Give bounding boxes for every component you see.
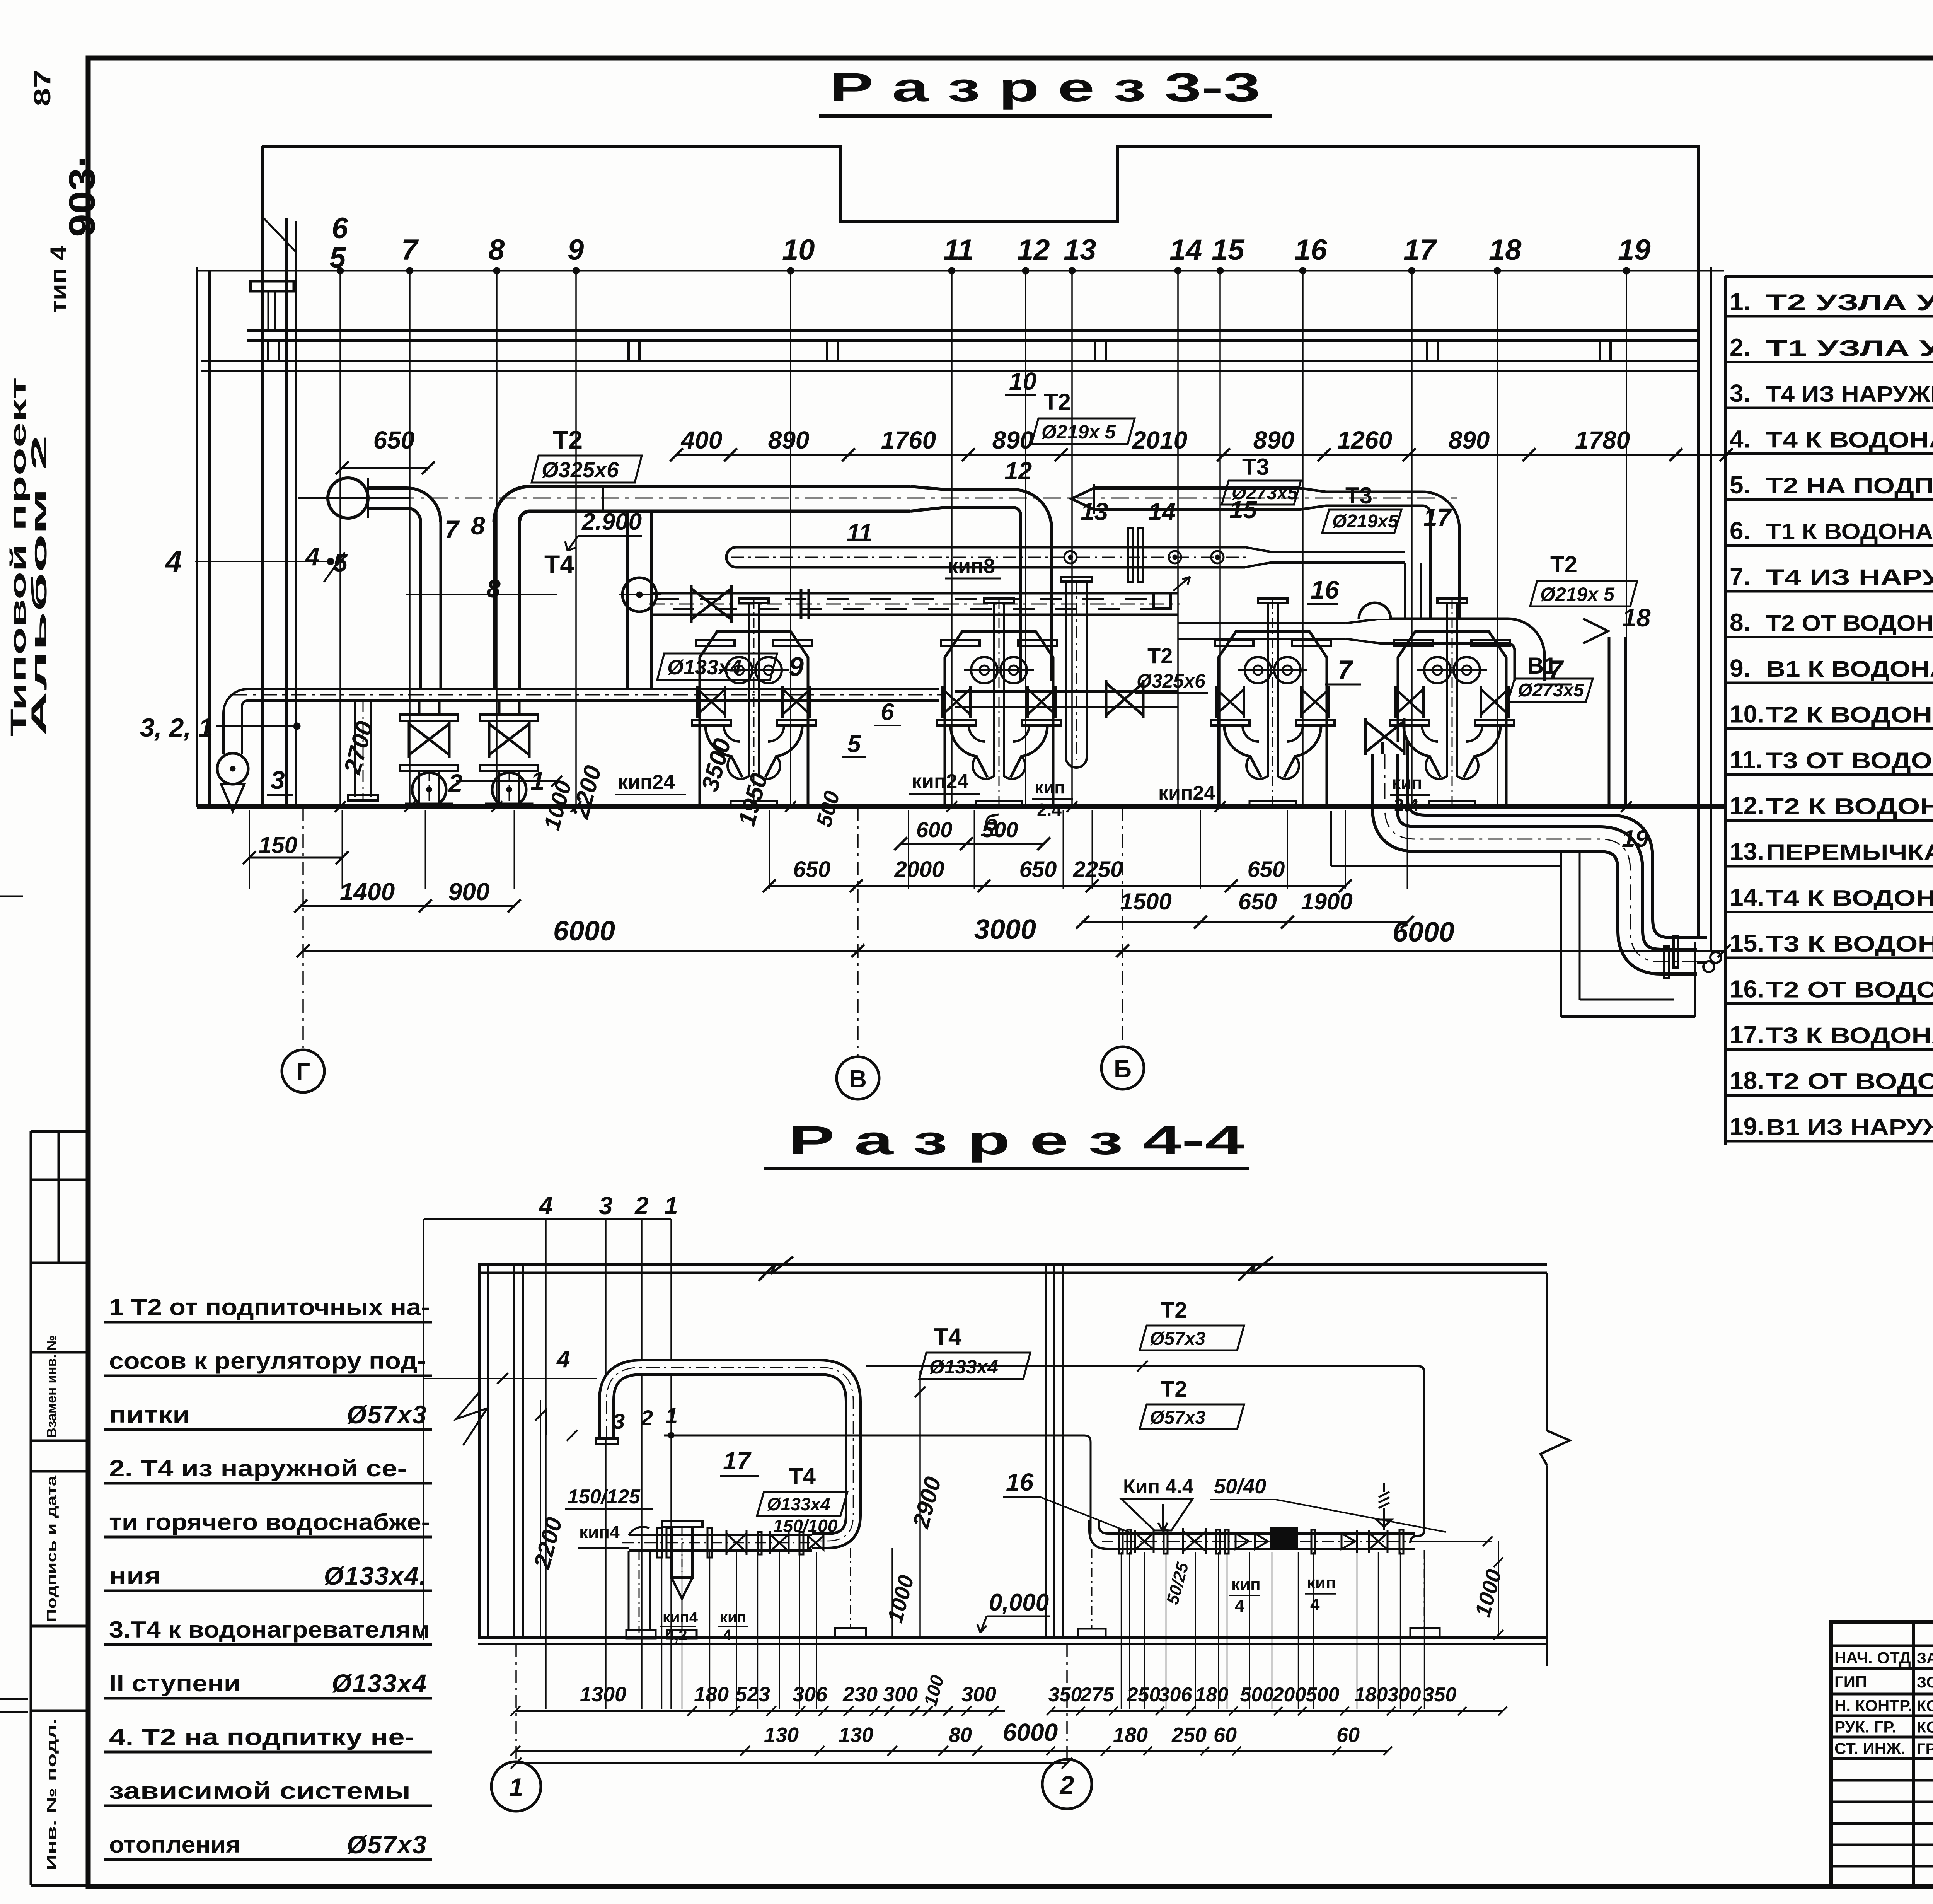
svg-text:306: 306: [1159, 1684, 1193, 1706]
svg-text:4: 4: [1310, 1595, 1320, 1614]
svg-text:Т4: Т4: [934, 1324, 962, 1350]
svg-text:10: 10: [782, 234, 815, 266]
svg-text:9: 9: [568, 234, 584, 266]
svg-text:890: 890: [1253, 426, 1295, 454]
svg-text:60: 60: [1214, 1723, 1237, 1747]
svg-text:Ø57х3: Ø57х3: [347, 1830, 427, 1859]
svg-text:7: 7: [445, 515, 460, 544]
svg-text:7: 7: [1338, 655, 1353, 684]
svg-text:350: 350: [1423, 1684, 1457, 1706]
svg-text:ГРИНБЕРГ: ГРИНБЕРГ: [1917, 1740, 1933, 1757]
svg-text:2. Т4 из наружной се-: 2. Т4 из наружной се-: [109, 1455, 407, 1481]
svg-text:4: 4: [556, 1346, 570, 1373]
svg-text:Кип 4.4: Кип 4.4: [1123, 1476, 1193, 1498]
svg-text:Ø325х6: Ø325х6: [1137, 670, 1206, 692]
svg-text:Г: Г: [296, 1058, 310, 1086]
svg-text:14: 14: [1169, 234, 1202, 266]
svg-text:кип4: кип4: [579, 1522, 620, 1542]
svg-text:Т2 ОТ ВОДОНАГРЕВАТЕЛЯ II С: Т2 ОТ ВОДОНАГРЕВАТЕЛЯ II СТУПЕНИ: [1766, 978, 1933, 1003]
svg-text:1: 1: [664, 1192, 678, 1220]
svg-text:650: 650: [1019, 857, 1057, 882]
svg-text:6000: 6000: [1003, 1718, 1058, 1746]
svg-text:Ø57х3: Ø57х3: [1150, 1408, 1205, 1428]
svg-text:Т1 К ВОДОНАГРЕВАТЕЛЯМ НЕЗАВИ: Т1 К ВОДОНАГРЕВАТЕЛЯМ НЕЗАВИСИМОЙ СИСТЕМ…: [1766, 519, 1933, 544]
svg-text:Ø219х5: Ø219х5: [1332, 511, 1399, 532]
svg-text:зависимой системы: зависимой системы: [109, 1778, 411, 1804]
svg-text:18: 18: [1489, 234, 1522, 266]
svg-text:15: 15: [1212, 234, 1245, 266]
svg-text:1.: 1.: [1730, 288, 1750, 316]
svg-text:Т2 К ВОДОНАГРЕВАТЕЛЮ I СТУП: Т2 К ВОДОНАГРЕВАТЕЛЮ I СТУПЕНИ: [1766, 703, 1933, 728]
svg-text:Ø325х6: Ø325х6: [542, 457, 619, 482]
svg-text:6000: 6000: [553, 916, 615, 947]
svg-text:4: 4: [305, 542, 320, 571]
svg-text:Т1 УЗЛА УПРАВЛЕНИЯ: Т1 УЗЛА УПРАВЛЕНИЯ: [1766, 336, 1933, 361]
svg-text:Ø133х4: Ø133х4: [667, 656, 741, 679]
svg-text:1900: 1900: [1301, 889, 1352, 914]
svg-text:Т2: Т2: [553, 425, 583, 454]
svg-text:180: 180: [694, 1683, 729, 1706]
svg-text:8: 8: [471, 511, 485, 540]
svg-text:12: 12: [1017, 234, 1050, 266]
svg-text:13: 13: [1081, 498, 1108, 525]
svg-text:2010: 2010: [1132, 426, 1187, 454]
svg-text:1 Т2 от подпиточных на-: 1 Т2 от подпиточных на-: [109, 1294, 430, 1320]
svg-text:Т2: Т2: [1161, 1377, 1187, 1402]
svg-text:4: 4: [1235, 1597, 1244, 1616]
svg-text:ния: ния: [109, 1563, 161, 1589]
svg-text:Альбом 2: Альбом 2: [27, 435, 51, 737]
svg-text:1: 1: [666, 1403, 678, 1428]
svg-text:17: 17: [1423, 503, 1452, 531]
svg-text:В1 К ВОДОНАГРЕВАТЕЛЯМ I СТУ: В1 К ВОДОНАГРЕВАТЕЛЯМ I СТУПЕНИ: [1766, 657, 1933, 682]
svg-text:ЗАХАРЕВСКИЙ: ЗАХАРЕВСКИЙ: [1917, 1649, 1933, 1667]
svg-text:180: 180: [1113, 1723, 1148, 1747]
svg-text:Ø219х 5: Ø219х 5: [1540, 583, 1615, 605]
svg-text:Т3 К ВОДОНАГРЕВАТЕЛЯМ II СТ: Т3 К ВОДОНАГРЕВАТЕЛЯМ II СТУПЕНИ: [1766, 1023, 1933, 1048]
svg-text:кип24: кип24: [618, 771, 675, 793]
svg-text:890: 890: [1449, 426, 1490, 454]
svg-text:2.4: 2.4: [1394, 795, 1419, 815]
svg-text:14: 14: [1148, 498, 1176, 525]
svg-text:10: 10: [1009, 367, 1036, 395]
svg-text:8: 8: [486, 574, 501, 603]
svg-text:890: 890: [768, 426, 810, 454]
svg-text:Т3 ОТ ВОДОНАГРЕВАТЕЛЯ I СТ: Т3 ОТ ВОДОНАГРЕВАТЕЛЯ I СТУПЕНИ: [1766, 748, 1933, 773]
svg-text:17.: 17.: [1730, 1021, 1764, 1049]
svg-text:отопления: отопления: [109, 1832, 240, 1858]
svg-text:5: 5: [333, 548, 348, 577]
svg-text:Взамен инв. №: Взамен инв. №: [44, 1335, 59, 1438]
svg-text:Ø57х3: Ø57х3: [347, 1400, 427, 1429]
svg-text:8.: 8.: [1730, 609, 1750, 636]
svg-text:230: 230: [842, 1683, 878, 1706]
svg-text:12.: 12.: [1730, 792, 1764, 820]
svg-text:сосов к регулятору под-: сосов к регулятору под-: [109, 1348, 426, 1374]
svg-text:3: 3: [271, 766, 285, 794]
svg-text:питки: питки: [109, 1402, 190, 1428]
svg-text:6.: 6.: [1730, 517, 1750, 545]
svg-text:11: 11: [943, 234, 974, 266]
svg-text:17: 17: [1403, 234, 1437, 266]
svg-text:6000: 6000: [1393, 917, 1454, 948]
svg-text:11.: 11.: [1730, 746, 1763, 774]
svg-text:87: 87: [29, 70, 55, 106]
svg-text:кип: кип: [720, 1609, 747, 1626]
svg-text:кип8: кип8: [948, 554, 995, 578]
svg-text:кип4: кип4: [663, 1609, 698, 1626]
svg-text:кип24: кип24: [1158, 782, 1215, 804]
svg-text:Т4 К ВОДОНАГРЕВАТЕЛЯМ II С: Т4 К ВОДОНАГРЕВАТЕЛЯМ II СТУПЕНИ: [1766, 886, 1933, 911]
svg-text:250: 250: [1127, 1684, 1161, 1706]
svg-text:ПЕРЕМЫЧКА ПО НАГРЕВАЕМОЙ ВОД: ПЕРЕМЫЧКА ПО НАГРЕВАЕМОЙ ВОДЕ: [1766, 840, 1933, 865]
svg-text:Ø133х4: Ø133х4: [767, 1494, 830, 1514]
svg-text:Т3 К ВОДОНАГРЕВАТЕЛЮ II СТ: Т3 К ВОДОНАГРЕВАТЕЛЮ II СТУПЕНИ: [1766, 932, 1933, 957]
svg-text:Т3: Т3: [1345, 483, 1372, 508]
svg-text:10.: 10.: [1730, 700, 1764, 728]
svg-text:350: 350: [1048, 1684, 1082, 1706]
svg-text:II ступени: II ступени: [109, 1670, 240, 1696]
svg-text:Ø133х4: Ø133х4: [929, 1356, 998, 1378]
svg-text:3.: 3.: [1730, 379, 1750, 407]
svg-text:306: 306: [793, 1683, 828, 1706]
svg-text:4: 4: [538, 1192, 553, 1220]
svg-text:2: 2: [1059, 1771, 1074, 1799]
svg-text:5.: 5.: [1730, 471, 1750, 499]
svg-text:4,2: 4,2: [666, 1627, 687, 1644]
svg-text:400: 400: [680, 426, 723, 454]
svg-text:1260: 1260: [1337, 426, 1392, 454]
svg-text:3, 2, 1: 3, 2, 1: [140, 713, 213, 742]
svg-text:18: 18: [1622, 603, 1651, 632]
svg-text:6: 6: [332, 212, 348, 245]
svg-text:ГИП: ГИП: [1834, 1673, 1867, 1691]
svg-text:кип: кип: [1307, 1573, 1336, 1592]
svg-text:1780: 1780: [1575, 426, 1630, 454]
svg-text:КОРОСТЫЛЕВА: КОРОСТЫЛЕВА: [1917, 1698, 1933, 1715]
svg-text:50/40: 50/40: [1214, 1475, 1266, 1498]
svg-text:Ø133х4: Ø133х4: [332, 1669, 427, 1698]
svg-text:тип 4: тип 4: [46, 245, 72, 313]
svg-text:Т2: Т2: [1161, 1298, 1187, 1323]
svg-text:300: 300: [1388, 1684, 1421, 1706]
svg-text:3: 3: [613, 1409, 625, 1433]
svg-text:Ø219х 5: Ø219х 5: [1042, 421, 1116, 443]
svg-text:150/125: 150/125: [568, 1486, 641, 1508]
svg-text:КОРОСТЫЛЕВА: КОРОСТЫЛЕВА: [1917, 1719, 1933, 1736]
svg-text:15: 15: [1229, 496, 1258, 524]
svg-text:1500: 1500: [1120, 889, 1171, 914]
svg-text:ти горячего водоснабже-: ти горячего водоснабже-: [109, 1509, 430, 1535]
svg-text:650: 650: [1248, 857, 1285, 882]
svg-text:б: б: [984, 810, 999, 836]
svg-text:Т2 ОТ ВОДОНАГРЕВАТЕЛЕЙ НЕЗАВ: Т2 ОТ ВОДОНАГРЕВАТЕЛЕЙ НЕЗАВИСИМОЙ СИСТЕ…: [1766, 611, 1933, 636]
svg-text:Т2: Т2: [1147, 643, 1173, 668]
svg-text:19.: 19.: [1730, 1112, 1764, 1140]
svg-text:16: 16: [1311, 575, 1340, 604]
svg-text:130: 130: [764, 1723, 799, 1747]
svg-text:Т2: Т2: [1044, 389, 1071, 415]
svg-text:Т2 НА ПОДПИТКУ НЕЗАВИСИМОЙ: Т2 НА ПОДПИТКУ НЕЗАВИСИМОЙ СИСТЕМЫ: [1766, 473, 1933, 498]
svg-text:Подпись и дата: Подпись и дата: [44, 1475, 59, 1622]
svg-text:12: 12: [1004, 457, 1032, 485]
svg-text:ЗОЛОТОВ: ЗОЛОТОВ: [1917, 1674, 1933, 1691]
svg-text:9.: 9.: [1730, 654, 1750, 682]
svg-text:16: 16: [1294, 234, 1327, 266]
svg-text:Н. КОНТР.: Н. КОНТР.: [1834, 1696, 1912, 1715]
svg-text:7: 7: [401, 234, 419, 266]
svg-text:13.: 13.: [1730, 838, 1764, 865]
svg-text:В: В: [849, 1065, 867, 1093]
svg-text:18.: 18.: [1730, 1067, 1764, 1095]
svg-text:15.: 15.: [1730, 929, 1764, 957]
svg-text:650: 650: [1238, 889, 1277, 914]
svg-text:4. Т2 на подпитку не-: 4. Т2 на подпитку не-: [109, 1724, 414, 1750]
svg-text:3: 3: [599, 1192, 613, 1220]
svg-text:Т3: Т3: [1242, 454, 1269, 480]
svg-text:Ø57х3: Ø57х3: [1150, 1329, 1205, 1349]
svg-text:250: 250: [1171, 1723, 1207, 1747]
svg-text:В1 ИЗ НАРУЖНОЙ СЕТИ ГОР. В: В1 ИЗ НАРУЖНОЙ СЕТИ ГОР. ВОДОПРОВОДА: [1766, 1115, 1933, 1140]
svg-text:Т4 К ВОДОНАГРЕВАТЕЛЯМ II СТ: Т4 К ВОДОНАГРЕВАТЕЛЯМ II СТУПЕНИ: [1766, 428, 1933, 453]
svg-text:кип: кип: [1392, 773, 1422, 793]
svg-text:Т2: Т2: [1550, 551, 1577, 577]
svg-text:80: 80: [949, 1723, 972, 1747]
svg-text:500: 500: [1240, 1684, 1274, 1706]
svg-text:9: 9: [789, 652, 804, 682]
svg-text:19: 19: [1622, 826, 1648, 852]
svg-text:2.4: 2.4: [1037, 800, 1062, 820]
svg-text:4: 4: [723, 1627, 732, 1644]
svg-text:СТ. ИНЖ.: СТ. ИНЖ.: [1834, 1739, 1906, 1757]
svg-text:Р а з р е з 3-3: Р а з р е з 3-3: [829, 65, 1260, 110]
svg-text:14.: 14.: [1730, 884, 1764, 911]
svg-text:150/100: 150/100: [773, 1516, 838, 1536]
svg-text:8: 8: [488, 234, 505, 266]
svg-text:1300: 1300: [580, 1683, 626, 1706]
svg-text:17: 17: [723, 1447, 752, 1475]
svg-text:0,000: 0,000: [989, 1589, 1049, 1616]
svg-text:300: 300: [961, 1683, 996, 1706]
svg-text:1760: 1760: [881, 426, 936, 454]
svg-text:523: 523: [735, 1683, 770, 1706]
svg-text:РУК. ГР.: РУК. ГР.: [1834, 1718, 1896, 1736]
svg-text:200: 200: [1272, 1684, 1306, 1706]
svg-text:7.: 7.: [1730, 563, 1750, 590]
svg-text:7: 7: [1548, 655, 1564, 684]
svg-text:890: 890: [992, 426, 1034, 454]
svg-text:Т4 ИЗ НАРУЖНОЙ СЕТИ К РЕГУЛ: Т4 ИЗ НАРУЖНОЙ СЕТИ К РЕГУЛЯТОРУ ПРЯМ.ДЕ…: [1766, 382, 1933, 407]
svg-text:3.Т4 к водонагревателям: 3.Т4 к водонагревателям: [109, 1617, 430, 1643]
svg-text:150: 150: [259, 832, 297, 858]
svg-text:180: 180: [1354, 1684, 1388, 1706]
svg-text:500: 500: [1306, 1684, 1340, 1706]
svg-text:НАЧ. ОТД: НАЧ. ОТД: [1834, 1649, 1911, 1667]
svg-text:Ø133х4.: Ø133х4.: [324, 1561, 427, 1590]
svg-text:2000: 2000: [894, 857, 944, 882]
svg-text:11: 11: [847, 519, 872, 547]
svg-text:19: 19: [1618, 234, 1651, 266]
svg-text:Т2 УЗЛА УПРАВЛЕНИЯ: Т2 УЗЛА УПРАВЛЕНИЯ: [1766, 290, 1933, 315]
svg-text:6: 6: [881, 699, 894, 725]
svg-text:903·: 903·: [61, 154, 103, 237]
svg-text:130: 130: [839, 1723, 873, 1747]
svg-text:Т2 К ВОДОНАГРЕВАТЕЛЮ I СТУ: Т2 К ВОДОНАГРЕВАТЕЛЮ I СТУПЕНИ: [1766, 794, 1933, 819]
svg-text:2: 2: [448, 769, 463, 797]
svg-text:650: 650: [793, 857, 831, 882]
svg-text:Т4: Т4: [544, 550, 574, 578]
svg-text:2: 2: [634, 1192, 649, 1220]
svg-text:600: 600: [916, 817, 952, 842]
svg-text:Б: Б: [1114, 1055, 1132, 1083]
svg-text:16.: 16.: [1730, 975, 1764, 1003]
svg-text:13: 13: [1064, 234, 1096, 266]
svg-text:кип24: кип24: [912, 770, 968, 793]
svg-text:1400: 1400: [340, 878, 395, 906]
svg-text:Т4: Т4: [789, 1463, 816, 1489]
svg-text:2250: 2250: [1072, 857, 1123, 882]
svg-text:Т4 ИЗ НАРУЖНОЙ СЕТИ: Т4 ИЗ НАРУЖНОЙ СЕТИ: [1766, 565, 1933, 590]
svg-text:2.900: 2.900: [581, 508, 642, 535]
svg-text:1: 1: [509, 1773, 523, 1802]
svg-text:кип: кип: [1231, 1575, 1261, 1594]
svg-text:Р а з р е з 4-4: Р а з р е з 4-4: [788, 1118, 1244, 1163]
svg-text:275: 275: [1080, 1684, 1115, 1706]
svg-text:4: 4: [165, 545, 182, 578]
svg-text:900: 900: [448, 878, 490, 906]
svg-text:16: 16: [1006, 1468, 1034, 1496]
svg-text:300: 300: [883, 1683, 918, 1706]
svg-text:650: 650: [373, 426, 415, 454]
svg-text:Инв. № подл.: Инв. № подл.: [44, 1718, 59, 1871]
svg-text:2.: 2.: [1730, 334, 1750, 362]
svg-text:5: 5: [847, 731, 861, 758]
svg-text:5: 5: [329, 241, 346, 274]
svg-text:180: 180: [1195, 1684, 1229, 1706]
svg-text:60: 60: [1336, 1723, 1360, 1747]
svg-text:Т2 ОТ ВОДОНАГРЕВАТЕЛЯ II С: Т2 ОТ ВОДОНАГРЕВАТЕЛЯ II СТУПЕНИ: [1766, 1069, 1933, 1094]
svg-text:3000: 3000: [974, 914, 1036, 945]
svg-text:2: 2: [641, 1406, 653, 1430]
svg-text:кип: кип: [1035, 777, 1065, 797]
